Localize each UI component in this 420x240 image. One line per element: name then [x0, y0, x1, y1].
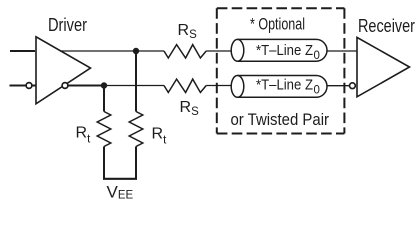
svg-text:0: 0	[314, 84, 320, 96]
svg-text:*T–Line Z: *T–Line Z	[256, 77, 313, 94]
wire: vertical from top junction down to right Rt	[135, 51, 137, 112]
wire: top T-line to receiver	[327, 50, 357, 52]
wire: bottom junction to RS (thin)	[104, 85, 164, 87]
receiver inverting input bubble	[350, 83, 356, 89]
wire: bottom output bubble to junction (thick)	[68, 85, 104, 87]
op-amp receiver triangle	[357, 37, 410, 96]
wire: vertical from bottom junction down to left Rt	[103, 86, 105, 112]
wire: bottom RS to T-line	[206, 85, 231, 87]
wire: driver inverting input	[10, 85, 27, 87]
driver inverting output bubble	[62, 83, 68, 89]
T-line top cylinder	[231, 39, 327, 61]
svg-text:Receiver: Receiver	[358, 16, 415, 36]
svg-text:RS: RS	[178, 22, 198, 41]
optional dashed box	[217, 8, 345, 133]
wire: bubble to driver edge	[32, 85, 36, 87]
svg-text:Rt: Rt	[152, 126, 168, 147]
wire: Rt left lower lead	[103, 147, 105, 179]
svg-text:0: 0	[314, 50, 320, 62]
resistor RS bottom zigzag	[164, 79, 206, 92]
wire: bottom T-line to receiver bubble	[327, 85, 350, 87]
wire: driver non-inverting input	[10, 50, 35, 52]
wire: top output from driver to RS	[60, 50, 164, 52]
svg-text:RS: RS	[180, 99, 200, 118]
svg-text:*T–Line Z: *T–Line Z	[256, 42, 313, 59]
svg-text:Rt: Rt	[76, 124, 92, 145]
wire: bottom tie to VEE	[103, 178, 137, 180]
resistor Rt left zigzag	[97, 112, 111, 147]
svg-text:* Optional: * Optional	[250, 14, 305, 33]
T-line bottom cylinder	[231, 76, 327, 98]
wire: Rt right lower lead	[135, 147, 137, 179]
svg-text:Driver: Driver	[48, 15, 87, 35]
wire: top RS to T-line	[206, 50, 231, 52]
node: top line junction dot	[133, 48, 139, 54]
resistor RS top zigzag	[164, 45, 206, 58]
svg-text:or Twisted Pair: or Twisted Pair	[231, 110, 330, 129]
svg-text:VEE: VEE	[107, 182, 134, 201]
resistor Rt right zigzag	[129, 112, 143, 147]
op-amp driver triangle	[36, 37, 91, 104]
node: bottom line junction dot	[101, 82, 107, 88]
inverting input bubble	[26, 83, 32, 89]
